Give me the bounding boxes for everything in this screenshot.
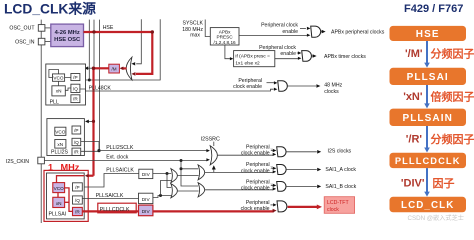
wire tap to PLL input (86, 67, 92, 69)
arrow red into LCD gate (273, 209, 277, 213)
svg-text:LCD-TFT: LCD-TFT (327, 200, 349, 206)
pll PLLI2S block (47, 119, 85, 156)
svg-text:分频因子: 分频因子 (431, 46, 474, 60)
svg-text:/Q: /Q (74, 140, 79, 145)
svg-text:PLLI2S: PLLI2S (51, 150, 69, 156)
svg-text:1): 1) (270, 183, 273, 187)
arrow into SAI1_B gate (273, 187, 277, 190)
svg-text:SAI1_A clock: SAI1_A clock (325, 167, 356, 173)
wire DIV1 out to mux cluster (153, 173, 171, 175)
pin OSC_OUT (38, 25, 45, 32)
svg-text:APBx peripheral clocks: APBx peripheral clocks (331, 29, 385, 35)
pin OSC_IN (38, 38, 45, 45)
svg-text:LCD_CLK: LCD_CLK (401, 200, 454, 211)
svg-text:4-26 MHz: 4-26 MHz (55, 30, 80, 36)
wire OSC_IN to HSE OSC (45, 41, 51, 43)
arrow PLL48CK into 48M gate (274, 88, 278, 91)
wire stub up x99.5 (99, 20, 101, 151)
svg-text:clock enable: clock enable (241, 168, 270, 174)
right column HSE box (390, 26, 467, 41)
wire tap to PLLI2S input (87, 120, 94, 122)
node dot div1 out (166, 172, 169, 175)
node dot HSE to sysclk mux (92, 30, 95, 33)
svg-text:/Q: /Q (73, 86, 78, 91)
svg-text:'/M': '/M' (405, 48, 423, 60)
svg-text:Peripheral: Peripheral (238, 78, 262, 84)
svg-text:clock enable: clock enable (241, 185, 270, 191)
svg-text:/P: /P (75, 185, 79, 190)
node dot ext branch (180, 159, 183, 162)
wire gate A out (321, 31, 322, 33)
svg-text:if (APBx presc =: if (APBx presc = (235, 54, 270, 60)
wire U2 out to SAI1_A gate (205, 171, 274, 173)
node dot HSE corner (151, 30, 154, 33)
wire I2SSRC out to I2S gate (217, 154, 273, 156)
svg-text:1): 1) (270, 148, 273, 152)
wire stub up x141 (HSI) (136, 19, 141, 64)
svg-text:I2SSRC: I2SSRC (201, 136, 220, 142)
arrow red into mux bottom input (131, 72, 135, 76)
svg-text:Peripheral: Peripheral (246, 162, 270, 168)
wire div1 branch down to L1 (167, 174, 171, 188)
svg-text:CSDN @嵌入式芝士: CSDN @嵌入式芝士 (408, 214, 464, 222)
svg-text:I2S clocks: I2S clocks (328, 148, 352, 154)
svg-text:PLL48CK: PLL48CK (89, 86, 112, 92)
wire PLLSAI /P jog up to PLLSAICLK1 (84, 174, 139, 188)
svg-text:VCO: VCO (53, 76, 64, 81)
svg-text:PRESC: PRESC (217, 35, 234, 40)
divider /M (highlighted) (109, 64, 120, 73)
wire SAI1_B gate out (286, 185, 317, 187)
svg-text:PLL: PLL (50, 100, 59, 106)
wire stub up x160 and PLLCLK horizontal (79, 19, 160, 80)
gate AND SAI1_A (277, 165, 286, 175)
svg-text:Peripheral: Peripheral (246, 145, 270, 151)
svg-text:F429 / F767: F429 / F767 (404, 3, 463, 15)
svg-text:clock enable: clock enable (233, 84, 262, 90)
right column PLLSAI box (390, 68, 467, 85)
wire red LCD gate out (288, 206, 317, 208)
wire PLLI2S /R out (81, 150, 99, 152)
gate AND I2S (277, 147, 286, 157)
svg-text:/P: /P (73, 75, 77, 80)
svg-text:I2S_CKIN: I2S_CKIN (6, 159, 29, 165)
svg-text:SYSCLK: SYSCLK (183, 21, 204, 27)
svg-text:APBx timer clocks: APBx timer clocks (324, 54, 366, 60)
svg-text:因子: 因子 (433, 177, 455, 190)
svg-text:xN: xN (56, 89, 62, 94)
wire red mux out to /M (122, 67, 127, 69)
wire PLLI2SCLK to I2SSRC mux (99, 150, 207, 152)
svg-text:/R: /R (74, 150, 79, 155)
wire PLLI2S /Q jog to PLLI2SCLK (81, 142, 99, 151)
divider APBx PRESC (210, 28, 239, 45)
svg-text:OSC_IN: OSC_IN (15, 39, 35, 45)
wire 48M gate out (287, 85, 316, 87)
svg-text:PLLSAI: PLLSAI (407, 72, 449, 83)
wire SYSCLK into APBx PRESC (205, 20, 210, 37)
svg-text:Peripheral: Peripheral (246, 179, 270, 185)
arrow red into /M (120, 67, 124, 71)
arrow into I2S gate (273, 153, 277, 156)
svg-text:enable: enable (280, 51, 296, 57)
node dot PLLI2SCLK (97, 149, 100, 152)
wire red trunk down (92, 68, 94, 175)
divider DIV 2 (139, 193, 153, 203)
svg-text:48 MHz: 48 MHz (324, 82, 342, 88)
svg-text:enable: enable (282, 29, 298, 35)
svg-text:/M: /M (112, 67, 117, 72)
pll PLLSAI block (47, 173, 85, 219)
svg-text:max: max (190, 33, 200, 39)
svg-text:PLLSAI: PLLSAI (49, 211, 67, 217)
svg-text:VCO: VCO (54, 186, 65, 191)
arrow into SAI1_A gate (273, 170, 277, 173)
highlight red rect around PLLSAI (44, 170, 88, 221)
svg-text:倍频因子: 倍频因子 (431, 89, 474, 103)
node dot ext branch U2 (180, 167, 183, 170)
wire L1 out to L2 (177, 190, 198, 192)
mux M0 (PLL source select) (126, 57, 132, 80)
gate AND LCD (277, 201, 287, 212)
oscillator HSE OSC (51, 24, 84, 46)
mux U1 (171, 169, 178, 183)
svg-text:/Q: /Q (75, 198, 80, 203)
wire enable stub SAI1B (272, 184, 273, 186)
svg-text:VCO: VCO (55, 129, 66, 134)
wire red DIV3 to LCD gate (153, 210, 274, 212)
wire SAI1_A gate out (286, 169, 317, 171)
wire enable stub SAI1A (272, 167, 273, 169)
svg-text:SAI1_B clock: SAI1_B clock (325, 184, 356, 190)
arrow into PLLI2S (85, 120, 89, 124)
svg-text:/P: /P (74, 128, 78, 133)
mux L1 (171, 184, 178, 198)
arrow blue 4 (426, 168, 428, 193)
node dot div2 out (159, 194, 162, 197)
svg-text:'/R': '/R' (406, 134, 423, 146)
arrow into mux top input (131, 62, 135, 65)
wire U1 out to U2 (177, 175, 198, 177)
highlight red rect PLLLCDCLK label (98, 203, 136, 213)
gate AND 48MHz (278, 81, 288, 92)
svg-text:clock enable: clock enable (241, 151, 270, 157)
arrow into I2SSRC mux top (206, 149, 210, 152)
wire red /M out to trunk (94, 67, 109, 69)
pll PLL block (46, 64, 86, 106)
svg-text:HSE: HSE (103, 25, 114, 31)
wire ext clock branch down (181, 161, 198, 187)
gate AND B (302, 51, 312, 62)
wire red PLLSAI internal (57, 176, 85, 212)
mux U2 (198, 165, 205, 180)
node LCD-TFT clock box (324, 197, 354, 214)
arrow into I2SSRC mux bottom (206, 158, 210, 161)
wire Ext clock from I2S_CKIN (44, 160, 206, 162)
wire OSC_OUT to HSE OSC (45, 27, 51, 29)
wire gate B out (311, 55, 312, 57)
wire APBx PRESC down to if box (225, 45, 230, 59)
svg-text:'DIV': 'DIV' (401, 178, 425, 190)
wire red PLLSAI /R out (PLLLCDCLK) (82, 210, 138, 212)
svg-text:Peripheral clock: Peripheral clock (261, 23, 298, 29)
svg-text:DIV: DIV (142, 209, 151, 214)
svg-text:Ext. clock: Ext. clock (106, 154, 129, 160)
node dot /M out (92, 67, 96, 71)
svg-text:DIV: DIV (142, 172, 151, 177)
arrow into gate B bottom (298, 57, 302, 60)
divider DIV 3 (highlighted) (139, 205, 153, 216)
node dot tap PLLI2S (92, 120, 95, 123)
svg-text:xN: xN (57, 142, 63, 147)
svg-text:PLLSAICLK: PLLSAICLK (106, 167, 134, 173)
pin I2S_CKIN (38, 157, 45, 164)
svg-text:PLLSAICLK: PLLSAICLK (96, 193, 124, 199)
mux L2 (198, 183, 205, 197)
wire L2 out to SAI1_B gate (205, 189, 274, 191)
right column PLLLCDCLK box (390, 153, 467, 168)
wire enable stub I2S (272, 150, 273, 152)
wire I2S gate out (286, 151, 317, 153)
svg-text:HSE: HSE (416, 29, 440, 40)
svg-text:PLLSAIN: PLLSAIN (402, 113, 452, 124)
wire PLLSAI /Q to DIV2 (82, 198, 138, 200)
wire ext branch to U2 (181, 168, 198, 170)
svg-text:'xN': 'xN' (403, 91, 423, 103)
arrow blue 2 (426, 85, 428, 104)
right column PLLSAIN box (390, 109, 467, 126)
svg-text:1): 1) (270, 166, 273, 170)
wire stub up x94 (93, 20, 95, 69)
wire stub up x89 (88, 20, 90, 80)
arrow blue 1 (426, 41, 428, 64)
node junction dot PLLCLK (88, 79, 91, 82)
svg-text:HSE OSC: HSE OSC (54, 37, 81, 43)
svg-text:/1,2,4,8,16: /1,2,4,8,16 (214, 40, 237, 45)
svg-text:分频因子: 分频因子 (431, 132, 474, 146)
wire enable stub LCD (271, 204, 273, 206)
svg-text:clock enable: clock enable (241, 206, 270, 212)
arrow blue 3 (426, 126, 428, 149)
svg-text:PLLLCDCLK: PLLLCDCLK (395, 156, 461, 166)
svg-text:clock: clock (327, 207, 339, 213)
svg-text:/R: /R (73, 97, 78, 102)
svg-text:clocks: clocks (324, 89, 339, 95)
wire enable stub gate B (297, 52, 298, 54)
wire I2SSRC select stub (213, 142, 215, 146)
wire PLL48CK from PLL /Q (80, 89, 274, 91)
mux I2SSRC (210, 146, 217, 165)
svg-text:1x1 else x2: 1x1 else x2 (235, 60, 260, 66)
arrow red into PLLSAI (87, 175, 94, 177)
gate AND SAI1_B (277, 182, 286, 192)
gate AND A (311, 26, 321, 37)
divider DIV 1 (139, 169, 153, 178)
arrow I2SSRC select up (213, 170, 215, 173)
svg-text:DIV: DIV (142, 197, 151, 202)
svg-text:/R: /R (75, 210, 80, 215)
svg-text:OSC_OUT: OSC_OUT (9, 26, 35, 32)
logic if APBx presc box (234, 51, 275, 67)
svg-text:xN: xN (56, 201, 62, 206)
svg-text:PLLLCDCLK: PLLLCDCLK (100, 207, 130, 213)
wire enable stub 48M (267, 82, 274, 84)
arrow into PLL (84, 66, 88, 70)
svg-text:LCD_CLK来源: LCD_CLK来源 (4, 0, 96, 16)
wire enable stub gate A (300, 27, 306, 29)
arrow into gate A bottom (307, 34, 311, 37)
right column LCD_CLK box (390, 197, 467, 213)
svg-text:Peripheral clock: Peripheral clock (259, 45, 296, 51)
wire APBx PRESC out to gate A (239, 35, 307, 37)
wire DIV2 out (153, 196, 171, 198)
wire if box out to gate B (275, 58, 298, 60)
chip boundary line (40, 20, 42, 223)
wire red HSE path (84, 32, 153, 74)
svg-text:PLLI2SCLK: PLLI2SCLK (106, 145, 134, 151)
wire div2 branch up to U1 (161, 181, 172, 196)
arrow into if box (230, 57, 234, 60)
